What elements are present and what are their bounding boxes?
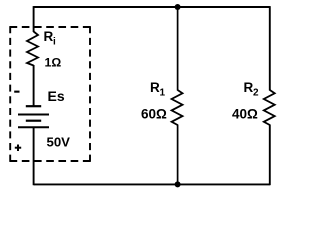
svg-text:R: R (150, 80, 160, 95)
wire right branch lower (269, 125, 271, 186)
battery Es plate 1 short (negative) (26, 105, 41, 107)
svg-text:1: 1 (160, 88, 166, 99)
battery Es plate 2 long (18, 114, 49, 116)
node junction dot bottom (175, 181, 181, 187)
dashed box bottom edge (10, 160, 91, 162)
wire right branch upper (269, 6, 271, 90)
battery Es plate 4 long (positive) (18, 126, 49, 128)
svg-text:50V: 50V (47, 135, 71, 150)
svg-text:Es: Es (48, 88, 65, 104)
svg-text:1Ω: 1Ω (45, 55, 62, 69)
svg-text:R: R (244, 80, 254, 95)
svg-text:60Ω: 60Ω (141, 106, 167, 121)
node junction dot top (175, 4, 181, 10)
wire top bus (34, 6, 270, 8)
wire Ri to battery (33, 65, 35, 106)
resistor Ri zigzag (27, 32, 38, 66)
battery Es plate 3 short (26, 120, 41, 122)
resistor R2 zigzag (264, 90, 275, 125)
svg-text:2: 2 (253, 88, 259, 99)
dashed box left edge (9, 26, 11, 162)
dashed box (Thevenin source enclosure): top edge (10, 26, 91, 28)
label minus (14, 91, 19, 93)
dashed box right edge (89, 26, 91, 162)
resistor R1 zigzag (172, 90, 183, 125)
svg-text:40Ω: 40Ω (232, 106, 258, 121)
svg-text:R: R (44, 29, 54, 44)
wire middle branch lower (177, 125, 179, 185)
wire left branch upper (33, 6, 35, 32)
svg-text:i: i (53, 37, 56, 48)
wire battery to bottom bus (33, 127, 35, 185)
wire bottom bus (34, 183, 270, 185)
wire middle branch upper (177, 7, 179, 91)
label plus (15, 147, 21, 149)
